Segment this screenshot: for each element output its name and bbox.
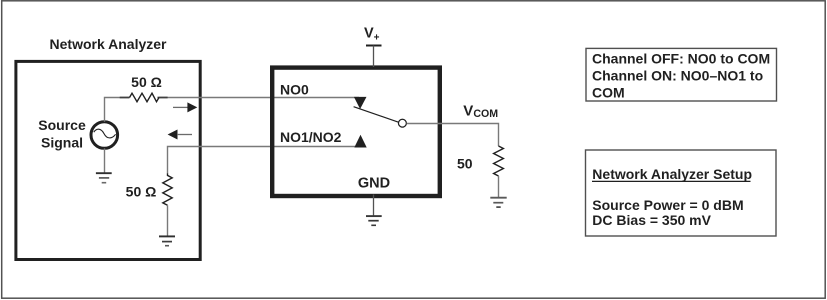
resistor R2 (vertical 50 ohm) — [163, 173, 172, 205]
switch contact NO0 (closed, down triangle) — [354, 97, 367, 109]
resistor R3 (vertical 50) — [494, 146, 504, 176]
arrow annotation (signal direction right) — [173, 102, 197, 112]
svg-text:Source Power = 0 dBM: Source Power = 0 dBM — [592, 197, 743, 213]
svg-text:COM: COM — [592, 85, 625, 101]
wire: V+ bar to box top — [373, 46, 375, 68]
wire: source bottom to ground — [104, 148, 106, 173]
svg-text:Signal: Signal — [41, 135, 83, 151]
svg-text:Network Analyzer Setup: Network Analyzer Setup — [592, 166, 752, 182]
ground (below source) — [96, 173, 112, 183]
wire: switch NO1 pin to node at R2 top — [168, 147, 356, 174]
wire: source top to resistor R1 — [105, 98, 130, 122]
resistor R1 lead segments — [120, 97, 130, 99]
switch box U1 — [272, 68, 440, 196]
V+ supply bar — [366, 45, 382, 47]
svg-text:50 Ω: 50 Ω — [126, 184, 157, 200]
switch contact NO1 (open, up triangle) — [354, 135, 366, 148]
ground (below R3) — [490, 198, 506, 207]
svg-text:Source: Source — [38, 117, 86, 133]
resistor R1 (horizontal 50 ohm) — [130, 93, 160, 102]
ground (GND pin) — [366, 216, 382, 225]
arrow annotation (signal direction left) — [168, 130, 192, 140]
switch arm — [354, 107, 399, 123]
network analyzer box — [16, 61, 200, 259]
svg-text:NO1/NO2: NO1/NO2 — [280, 129, 342, 145]
wire: R1 to switch NO0 pin — [159, 97, 359, 99]
svg-text:GND: GND — [358, 176, 390, 192]
note box: network analyzer setup — [586, 150, 777, 236]
source V1 (AC source circle) — [91, 122, 118, 149]
ground (below R2) — [159, 236, 175, 245]
svg-text:Channel ON: NO0–NO1 to: Channel ON: NO0–NO1 to — [592, 68, 763, 84]
wire: R2 to ground — [167, 205, 169, 236]
svg-text:50 Ω: 50 Ω — [131, 74, 162, 90]
switch pole (open circle, COM) — [398, 119, 406, 127]
svg-text:50: 50 — [457, 156, 473, 172]
svg-text:Channel OFF: NO0 to COM: Channel OFF: NO0 to COM — [592, 51, 770, 67]
note box: channel states — [586, 48, 777, 101]
wire: box bottom to ground — [373, 195, 375, 217]
svg-text:NO0: NO0 — [280, 82, 309, 98]
svg-text:DC Bias = 350 mV: DC Bias = 350 mV — [592, 212, 711, 228]
wire: R3 to ground — [498, 176, 500, 198]
svg-text:Network Analyzer: Network Analyzer — [50, 36, 168, 52]
wire: switch pole to VCOM node and down to R3 — [407, 124, 499, 147]
